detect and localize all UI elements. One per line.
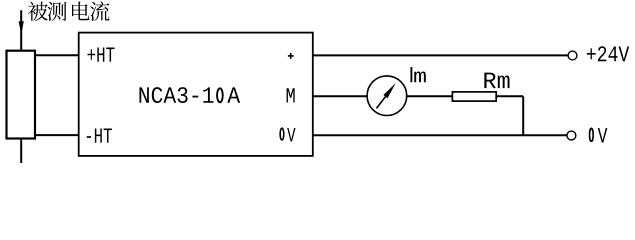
part number label NCA3-10A — [139, 87, 240, 103]
pin label + (cross) — [288, 53, 294, 59]
wire: conductor to +HT pin — [35, 54, 79, 56]
terminal: 0V output (open circle) — [567, 131, 576, 140]
primary conductor bar (current being measured) — [7, 51, 36, 139]
meter Im: moving-coil ammeter circle — [367, 76, 407, 116]
pin label 0V — [280, 128, 295, 142]
wire: conductor to -HT pin — [35, 134, 79, 136]
wire: + pin to +24V terminal — [313, 54, 568, 56]
label 0V at output terminal — [590, 128, 608, 142]
wire: measured-current input arrow shaft — [20, 10, 22, 50]
arrowhead: measured current direction (down) — [19, 21, 24, 34]
module U1: NCA3-10A hall current sensor (box) — [79, 33, 313, 156]
label Rm — [484, 73, 509, 88]
wire: meter Im to resistor Rm — [407, 95, 453, 97]
wire: M pin to meter Im — [313, 95, 367, 97]
pin label +HT — [88, 47, 115, 61]
resistor Rm (box symbol) — [452, 92, 496, 101]
terminal: +24V output (open circle) — [568, 51, 577, 60]
label +24V — [587, 46, 629, 61]
label Im — [410, 67, 425, 82]
wire: junction drop down to 0V rail — [522, 96, 524, 135]
wire: conductor bottom lead — [20, 139, 22, 164]
meter needle arrowhead — [383, 83, 395, 98]
pin label M — [287, 88, 295, 102]
meter needle shaft — [376, 97, 385, 109]
wire: Rm to junction over 0V rail — [496, 95, 523, 97]
label: 被测电流 (measured current) — [28, 1, 110, 21]
wire: 0V pin rail to 0V terminal — [313, 134, 567, 136]
pin label -HT — [87, 129, 112, 143]
